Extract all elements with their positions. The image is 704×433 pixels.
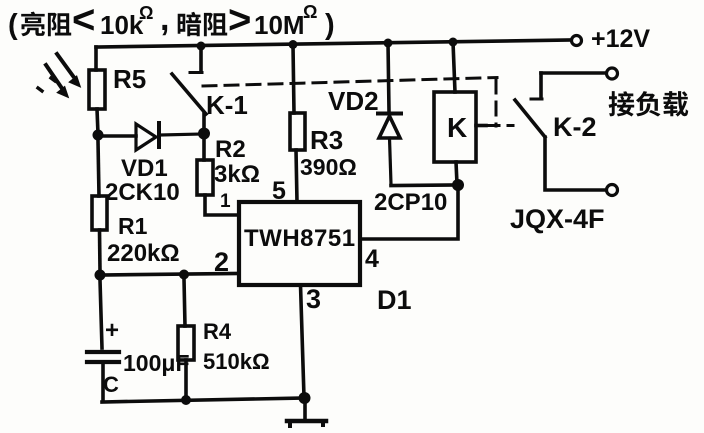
resistor R5 xyxy=(89,70,105,109)
wire pin 2 xyxy=(100,274,239,276)
svg-text:VD1: VD1 xyxy=(121,155,168,182)
dashed mechanical link K-1 to K xyxy=(203,78,513,127)
svg-text:D1: D1 xyxy=(377,285,412,315)
svg-text:510kΩ: 510kΩ xyxy=(203,349,270,374)
svg-text:TWH8751: TWH8751 xyxy=(244,225,356,252)
wire top rail xyxy=(96,40,571,47)
svg-text:Ω: Ω xyxy=(303,2,317,22)
svg-text:JQX-4F: JQX-4F xyxy=(510,204,605,234)
wire rail to K xyxy=(453,42,455,92)
svg-text:220kΩ: 220kΩ xyxy=(107,240,180,267)
node rail/VD2 junction xyxy=(384,39,393,48)
node D junction (R4 top) xyxy=(179,270,189,280)
svg-text:Ω: Ω xyxy=(139,3,153,23)
svg-text:2CK10: 2CK10 xyxy=(105,179,180,206)
wire R2 to pin 1 xyxy=(205,195,239,215)
node E junction (R4 bottom) xyxy=(181,395,191,405)
svg-text:C: C xyxy=(103,372,119,397)
svg-text:10M: 10M xyxy=(254,10,305,40)
node rail/R3 junction xyxy=(289,40,298,49)
svg-text:R1: R1 xyxy=(118,213,148,239)
light arrow 2 xyxy=(38,65,68,97)
wire VD2 to node G xyxy=(391,183,458,187)
diode VD2 xyxy=(378,114,401,185)
title text xyxy=(8,0,335,42)
wire node A to VD1 xyxy=(98,134,136,138)
switch K-1 xyxy=(172,42,206,131)
node C junction (R1/C/pin2) xyxy=(95,270,106,281)
wire rail to R5 xyxy=(94,47,98,70)
wire bottom rail xyxy=(102,398,305,402)
svg-text:K: K xyxy=(447,112,467,143)
wire R5 to node A xyxy=(97,109,98,134)
svg-text:(: ( xyxy=(8,9,18,41)
svg-text:VD2: VD2 xyxy=(328,86,379,116)
wire rail to R3 xyxy=(293,45,294,113)
resistor R3 xyxy=(290,113,305,150)
node G junction (K/VD2/pin4) xyxy=(452,179,464,191)
node F junction (pin3/ground) xyxy=(299,392,311,404)
capacitor C xyxy=(87,280,119,400)
pin 3 wire xyxy=(301,285,305,397)
svg-text:2CP10: 2CP10 xyxy=(374,189,447,216)
pin 5 wire xyxy=(296,150,297,202)
svg-text:K-1: K-1 xyxy=(206,90,248,120)
label 接负载 xyxy=(609,91,689,117)
resistor R2 xyxy=(202,139,206,160)
node rail/K junction xyxy=(449,38,458,47)
svg-text:): ) xyxy=(325,9,335,41)
wire rail to VD2 xyxy=(388,43,389,111)
switch K-2 xyxy=(515,73,606,190)
svg-text:2: 2 xyxy=(214,247,229,277)
pin 4 wire xyxy=(360,189,458,239)
svg-text:R5: R5 xyxy=(113,64,146,94)
svg-text:+: + xyxy=(105,317,119,344)
svg-text:3kΩ: 3kΩ xyxy=(214,161,260,188)
svg-text:390Ω: 390Ω xyxy=(300,154,357,180)
svg-text:R4: R4 xyxy=(203,319,232,344)
ground xyxy=(287,398,326,426)
svg-text:>: > xyxy=(228,0,251,42)
resistor R1 xyxy=(98,141,99,196)
terminal +12V circle xyxy=(572,36,582,46)
svg-text:<: < xyxy=(72,0,95,42)
terminal top circle xyxy=(607,68,618,79)
op-amp U1 TWH8751 xyxy=(239,202,360,285)
node A junction xyxy=(93,130,104,141)
svg-text:10k: 10k xyxy=(100,10,144,40)
svg-text:,: , xyxy=(160,0,169,38)
svg-text:1: 1 xyxy=(220,191,231,212)
svg-text:+12V: +12V xyxy=(591,25,650,53)
terminal bottom circle xyxy=(607,185,618,196)
svg-text:4: 4 xyxy=(365,245,379,273)
svg-text:K-2: K-2 xyxy=(553,112,597,142)
resistor R4 xyxy=(184,279,185,326)
diode VD1 xyxy=(136,123,203,150)
svg-text:5: 5 xyxy=(272,177,286,205)
relay coil K xyxy=(434,92,476,162)
svg-text:3: 3 xyxy=(306,284,321,314)
svg-text:R3: R3 xyxy=(310,125,343,155)
node B junction (VD1/K-1/R2) xyxy=(198,128,210,140)
svg-text:R2: R2 xyxy=(215,136,246,163)
light arrow 1 xyxy=(51,54,80,87)
